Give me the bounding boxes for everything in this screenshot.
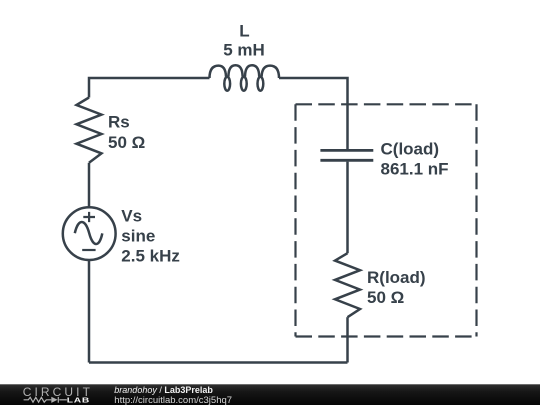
resistor R(load) zigzag [335,253,360,317]
wire top-right segment [279,78,348,149]
svg-text:R(load): R(load) [367,268,426,287]
wire bottom-right vertical [346,317,349,362]
svg-text:sine: sine [121,227,155,246]
capacitor C(load) bottom plate [320,159,373,162]
wire cap to R(load) [346,162,349,254]
voltage source Vs circle [63,207,116,260]
svg-text:Vs: Vs [121,207,142,226]
dashed load box [296,104,477,336]
svg-text:861.1 nF: 861.1 nF [381,160,449,179]
svg-text:L: L [239,22,249,41]
Vs plus sign [83,212,95,222]
Vs minus sign [82,249,95,251]
svg-text:http://circuitlab.com/c3j5hq7: http://circuitlab.com/c3j5hq7 [114,395,232,405]
svg-text:C(load): C(load) [381,140,440,159]
logo diode triangle [51,397,57,403]
Vs sine wave [75,222,103,244]
svg-text:Rs: Rs [108,112,130,131]
wire Vs to bottom [88,260,91,363]
resistor Rs zigzag [77,98,102,163]
svg-text:50 Ω: 50 Ω [367,288,404,307]
footer bar [0,384,540,405]
svg-text:LAB: LAB [67,396,90,404]
capacitor C(load) top plate [320,149,373,152]
wire top-left segment [89,78,210,98]
svg-text:50 Ω: 50 Ω [108,133,145,152]
wire bottom [89,361,348,364]
logo resistor zigzag and diode [24,397,67,403]
svg-text:2.5 kHz: 2.5 kHz [121,247,180,266]
svg-text:5 mH: 5 mH [223,40,265,59]
svg-text:brandohoy / Lab3Prelab: brandohoy / Lab3Prelab [114,385,213,395]
wire Rs to Vs [88,163,91,207]
inductor L coil [210,65,280,78]
